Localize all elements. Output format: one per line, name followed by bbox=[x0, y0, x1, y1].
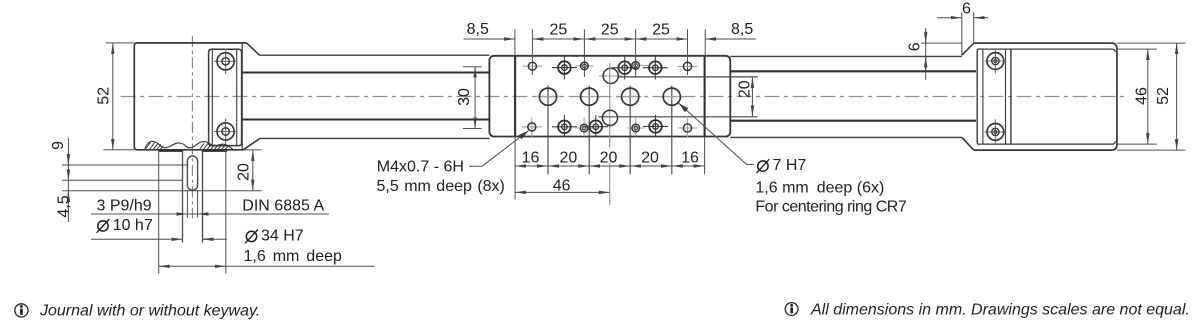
hole sm-double top (635.6,65.4) bbox=[640, 64, 648, 66]
hole M4-5 bottom (595.8,126.7) bbox=[583, 126, 608, 128]
right block outer outline bbox=[974, 43, 1117, 150]
right rail inner bottom (thick) bbox=[730, 120, 976, 122]
journal vertical centerline bbox=[191, 36, 193, 219]
dim 20 journal bbox=[252, 150, 254, 190]
dim 6 vertical bbox=[925, 28, 927, 72]
dim 52 right extension lines bbox=[1117, 42, 1186, 44]
dim 46 right bbox=[1147, 49, 1149, 144]
carriage plate outline bbox=[489, 56, 730, 137]
dim Ø34 bbox=[159, 265, 226, 267]
screw S1 top left crosshair bbox=[214, 60, 237, 62]
dim 30 extension lines bbox=[463, 66, 482, 68]
right rail inner top (thick) bbox=[730, 70, 976, 72]
svg-text:52: 52 bbox=[96, 87, 113, 105]
bottom dimension line 16/20/20/20/16 bbox=[515, 165, 548, 167]
svg-text:Journal with or without keyway: Journal with or without keyway. bbox=[39, 302, 260, 319]
middle row centering hole C2 bbox=[588, 86, 590, 175]
dim 6 vertical extension line bbox=[921, 42, 962, 44]
left rail outer top bbox=[260, 54, 490, 56]
svg-text:46: 46 bbox=[1134, 87, 1151, 105]
screw S4 bottom right bbox=[987, 123, 1004, 140]
svg-text:16: 16 bbox=[522, 150, 540, 167]
right block top chamfer bbox=[962, 43, 974, 55]
left block bottom chamfer bbox=[243, 139, 260, 150]
top extension verticals bbox=[514, 29, 516, 56]
svg-text:1,6 mm deep (6x): 1,6 mm deep (6x) bbox=[755, 180, 884, 197]
label Ø34 H7 bbox=[245, 230, 258, 244]
svg-text:20: 20 bbox=[236, 163, 253, 181]
hole H4 bottom (687.5,128) plain bbox=[678, 127, 698, 129]
svg-text:25: 25 bbox=[550, 22, 568, 39]
left block mounting plate bbox=[209, 49, 242, 145]
hole M4-6 bottom (655.5,126.4) bbox=[643, 125, 668, 127]
right block inner cap line top bbox=[980, 49, 1115, 52]
svg-text:25: 25 bbox=[652, 22, 670, 39]
svg-text:M4x0.7 - 6H: M4x0.7 - 6H bbox=[377, 158, 464, 175]
svg-text:3 P9/h9: 3 P9/h9 bbox=[97, 198, 152, 215]
carriage body edge right (thick) bbox=[704, 56, 706, 137]
right block bottom chamfer bbox=[962, 137, 974, 150]
svg-text:For centering ring CR7: For centering ring CR7 bbox=[755, 199, 906, 216]
dim 3 P9/h9 + DIN 6885 A leader line bbox=[91, 213, 329, 215]
svg-text:DIN 6885 A: DIN 6885 A bbox=[242, 198, 324, 215]
screw S3 top right bbox=[987, 53, 1004, 70]
main horizontal centerline bbox=[121, 96, 1125, 98]
break-out wavy line bbox=[145, 141, 234, 150]
right rail outer top bbox=[730, 55, 962, 57]
svg-text:8,5: 8,5 bbox=[731, 21, 753, 38]
svg-text:34 H7: 34 H7 bbox=[261, 228, 304, 245]
carriage center vertical line bbox=[609, 63, 611, 148]
hole M4-2 top (624.7,67.7) bbox=[612, 67, 637, 69]
hole sm-double top (584.4,65.9) bbox=[575, 65, 593, 67]
dim 20 journal extension bbox=[243, 149, 262, 151]
screw S2 bottom left crosshair bbox=[214, 131, 237, 133]
hole H1 top (532.4,66.2) plain bbox=[523, 65, 543, 67]
left plate right edge / block shoulder bbox=[241, 44, 243, 150]
left end block outline bbox=[134, 43, 246, 150]
journal bottom face thick segments bbox=[158, 149, 182, 152]
hole M4-4 bottom (564.4,126.8) bbox=[552, 126, 577, 128]
top dimension line 8,5 / 25 / 25 / 25 / 8,5 bbox=[464, 38, 515, 40]
svg-text:20: 20 bbox=[600, 150, 618, 167]
label Ø7 H7 bbox=[757, 159, 770, 173]
hatching right patch bbox=[200, 143, 229, 150]
right rail outer bottom bbox=[730, 136, 962, 138]
dim Ø10 h7 bbox=[91, 238, 171, 240]
middle row centering hole C3 bbox=[629, 86, 631, 175]
middle row centering hole C4 bbox=[671, 86, 673, 175]
dim 46 bbox=[515, 191, 610, 193]
keyway extension verticals bbox=[186, 190, 188, 218]
hole M4-3 top (655.3,67.7) bbox=[643, 67, 668, 69]
dim 6 horizontal bbox=[937, 17, 962, 19]
hole sm-double bottom (635.7,128) bbox=[627, 127, 645, 129]
svg-text:6: 6 bbox=[907, 42, 924, 51]
dim 52 left extension lines bbox=[106, 42, 135, 44]
svg-text:20: 20 bbox=[641, 150, 659, 167]
dim 52 left bbox=[112, 43, 114, 150]
bottom dims 16/20/20/20/16 extension verticals bbox=[514, 137, 516, 200]
dim 52 right bbox=[1176, 43, 1178, 150]
svg-text:All dimensions in mm. Drawings: All dimensions in mm. Drawings scales ar… bbox=[810, 301, 1190, 318]
keyway slot bbox=[187, 156, 197, 190]
hole H1 bottom (531.8,126.9) plain bbox=[522, 126, 542, 128]
journal Ø34 extension verticals bbox=[158, 150, 160, 274]
hole M4-1 top (564.4,67.6) bbox=[552, 67, 577, 69]
dim 20 rod bbox=[751, 77, 753, 117]
dim 46 right extension lines bbox=[1117, 48, 1157, 50]
hole big offset top (610.7,75.9) bbox=[599, 75, 622, 77]
svg-text:20: 20 bbox=[560, 150, 578, 167]
svg-text:30: 30 bbox=[456, 88, 473, 106]
screw S3 top right crosshair bbox=[985, 60, 1007, 62]
svg-text:1,6 mm deep: 1,6 mm deep bbox=[244, 248, 342, 265]
dim lines 9 / 4,5 bbox=[62, 164, 188, 166]
middle row centering hole C1 bbox=[547, 86, 549, 175]
dim 6 horizontal extension verticals bbox=[961, 12, 963, 55]
hole big offset bottom (610,117.8) bbox=[602, 110, 617, 125]
svg-text:46: 46 bbox=[553, 178, 571, 195]
left rail outer bottom bbox=[260, 137, 490, 139]
svg-text:9: 9 bbox=[50, 141, 67, 150]
note icon right bbox=[785, 303, 798, 316]
svg-text:4,5: 4,5 bbox=[56, 195, 73, 217]
dim 30 bbox=[474, 67, 476, 129]
journal shaft Ø10 edges bbox=[182, 151, 184, 243]
carriage body edge left (thick) bbox=[514, 56, 516, 137]
svg-text:10 h7: 10 h7 bbox=[113, 217, 153, 234]
svg-text:16: 16 bbox=[681, 150, 699, 167]
left rail inner top (thick) bbox=[242, 71, 489, 73]
right block plate bbox=[977, 49, 980, 145]
screw S1 top left bbox=[217, 53, 234, 70]
right block inner cap line bottom bbox=[980, 141, 1115, 144]
svg-text:20: 20 bbox=[737, 80, 754, 98]
screw S2 bottom left bbox=[217, 123, 234, 140]
hatching left patch bbox=[146, 142, 164, 150]
label Ø10 h7 bbox=[97, 219, 110, 233]
rod silhouette lines through carriage to right block bbox=[618, 76, 758, 78]
left plate inner edge lines bbox=[211, 50, 213, 146]
leader Ø7 bbox=[747, 163, 754, 165]
screw S4 bottom right crosshair bbox=[985, 131, 1007, 133]
hole H4 top (687.5,66.4) plain bbox=[678, 65, 698, 67]
note icon left bbox=[15, 304, 28, 317]
svg-text:52: 52 bbox=[1155, 87, 1172, 105]
svg-text:7 H7: 7 H7 bbox=[773, 157, 807, 174]
svg-text:6: 6 bbox=[962, 1, 971, 18]
left rail inner bottom (thick) bbox=[242, 118, 489, 120]
hole sm-double bottom (584.1,128) bbox=[575, 127, 593, 129]
left block top chamfer bbox=[247, 43, 260, 56]
leader M4 bbox=[469, 165, 482, 167]
svg-text:5,5 mm deep (8x): 5,5 mm deep (8x) bbox=[377, 178, 505, 195]
svg-text:25: 25 bbox=[601, 22, 619, 39]
svg-text:8,5: 8,5 bbox=[467, 21, 489, 38]
